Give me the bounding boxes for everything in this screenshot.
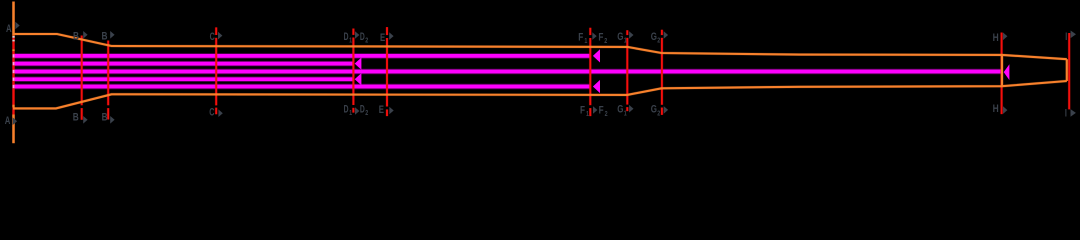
string line L5 (15, 85, 591, 89)
svg-text:B: B (73, 112, 79, 124)
line gap ticks bottom row (80, 105, 664, 110)
arrowhead L2 at D (355, 58, 362, 70)
svg-text:2: 2 (657, 36, 660, 45)
orange tick on A lower (12, 105, 14, 108)
svg-text:E: E (379, 104, 385, 116)
section line E (386, 27, 388, 116)
orange tick on A upper (12, 49, 14, 51)
envelope right cap at I (1066, 59, 1068, 81)
arrowhead L5 at F (593, 80, 600, 93)
envelope bottom outline (13, 81, 1067, 108)
string line L2 (15, 62, 354, 66)
svg-text:D: D (360, 104, 365, 116)
svg-text:G: G (617, 104, 623, 116)
section line I (1068, 33, 1070, 109)
line gap ticks top row (214, 35, 664, 38)
arrowhead L3 at H (1004, 64, 1010, 80)
section line F (589, 28, 591, 116)
svg-text:C: C (209, 107, 214, 119)
svg-text:C: C (210, 31, 215, 43)
section line G2 (661, 30, 663, 115)
svg-text:D: D (360, 31, 365, 43)
pink crossing dashes on A (13, 54, 15, 88)
section line A (orange top) (12, 2, 14, 36)
svg-text:1: 1 (584, 36, 587, 45)
section line B1 (81, 36, 83, 120)
gray dashes on A (12, 36, 14, 38)
svg-text:D: D (344, 31, 349, 43)
svg-text:2: 2 (365, 36, 368, 45)
envelope glow (13, 2, 1067, 144)
section line D (352, 29, 354, 113)
svg-text:1: 1 (349, 36, 352, 45)
svg-text:E: E (380, 32, 386, 44)
svg-text:F: F (598, 31, 603, 43)
string line L4 (15, 77, 354, 81)
svg-text:B: B (73, 30, 79, 42)
section line A (orange bottom) (12, 115, 14, 144)
envelope step cap at H (1001, 55, 1003, 86)
svg-text:A: A (5, 115, 11, 127)
section line B2 (107, 41, 109, 120)
svg-text:F: F (580, 105, 585, 117)
svg-text:G: G (651, 104, 657, 116)
string line L3 glow (15, 69, 1002, 74)
svg-text:1: 1 (349, 108, 352, 117)
svg-text:2: 2 (605, 109, 608, 118)
string line L5 glow (15, 84, 591, 89)
string line L2 glow (15, 61, 354, 66)
arrowhead L1 at F (593, 49, 600, 62)
string line L3 (15, 70, 1002, 74)
arrowhead L4 at D (355, 73, 362, 85)
svg-text:2: 2 (604, 36, 607, 45)
svg-text:G: G (651, 31, 657, 43)
svg-text:I: I (1065, 107, 1067, 119)
svg-text:A: A (6, 23, 12, 35)
section line A (red middle) (12, 36, 14, 115)
svg-text:H: H (993, 103, 999, 115)
string line L4 glow (15, 76, 354, 81)
svg-text:I: I (1065, 31, 1067, 43)
svg-text:H: H (993, 32, 999, 44)
svg-text:F: F (578, 31, 583, 43)
svg-text:1: 1 (624, 108, 627, 117)
svg-text:D: D (344, 104, 349, 116)
section line G1 (626, 30, 628, 111)
envelope top outline (13, 34, 1067, 59)
section line C (215, 27, 217, 114)
svg-text:1: 1 (586, 109, 589, 118)
red section line glows (14, 27, 1070, 120)
svg-text:F: F (599, 105, 604, 117)
string line L1 (15, 54, 591, 58)
string line L1 glow (15, 53, 591, 58)
svg-text:B: B (102, 30, 108, 42)
svg-text:2: 2 (657, 108, 660, 117)
svg-text:2: 2 (365, 108, 368, 117)
svg-text:G: G (617, 31, 623, 43)
section line H (1001, 33, 1003, 115)
svg-text:1: 1 (624, 36, 627, 45)
svg-text:B: B (102, 112, 108, 124)
